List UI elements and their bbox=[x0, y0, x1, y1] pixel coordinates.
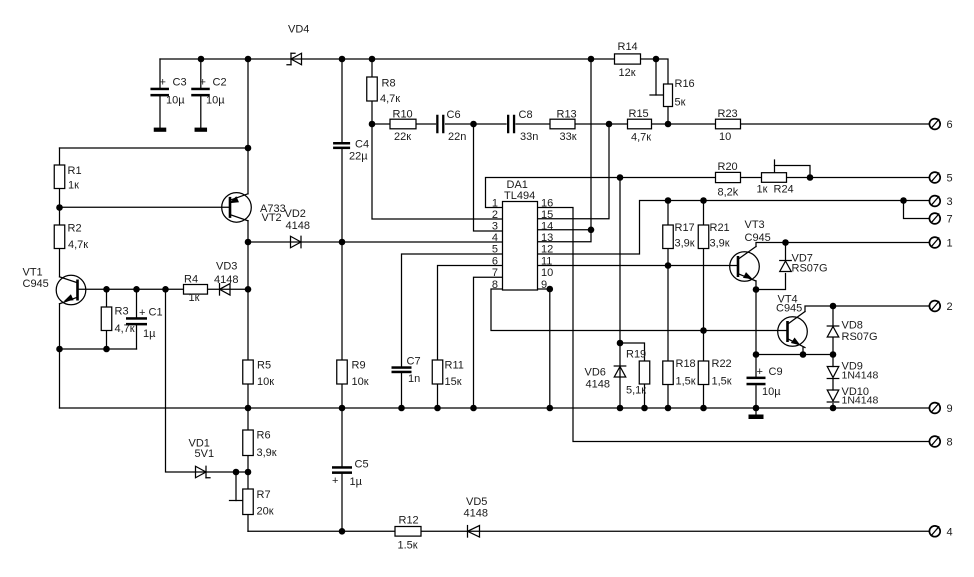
svg-text:VD2: VD2 bbox=[285, 208, 306, 220]
svg-text:15к: 15к bbox=[445, 376, 462, 388]
svg-text:R21: R21 bbox=[710, 222, 730, 234]
svg-text:1N4148: 1N4148 bbox=[842, 395, 879, 407]
svg-text:C3: C3 bbox=[173, 77, 187, 89]
svg-text:R7: R7 bbox=[257, 489, 271, 501]
svg-text:C4: C4 bbox=[355, 139, 369, 151]
svg-text:10: 10 bbox=[541, 267, 553, 279]
svg-text:5: 5 bbox=[947, 173, 953, 185]
svg-text:R20: R20 bbox=[718, 161, 738, 173]
svg-text:5к: 5к bbox=[675, 97, 686, 109]
svg-text:4148: 4148 bbox=[586, 379, 610, 391]
svg-text:10к: 10к bbox=[352, 376, 369, 388]
svg-text:1к: 1к bbox=[189, 292, 200, 304]
svg-text:16: 16 bbox=[541, 197, 553, 209]
svg-text:9: 9 bbox=[541, 279, 547, 291]
svg-text:VT2: VT2 bbox=[262, 212, 282, 224]
svg-text:C5: C5 bbox=[355, 459, 369, 471]
svg-text:VD8: VD8 bbox=[842, 320, 863, 332]
svg-text:6: 6 bbox=[492, 255, 498, 267]
svg-text:+: + bbox=[200, 77, 206, 89]
svg-text:4,7к: 4,7к bbox=[380, 93, 400, 105]
svg-text:+: + bbox=[139, 307, 145, 319]
svg-text:10к: 10к bbox=[257, 376, 274, 388]
svg-text:+: + bbox=[757, 366, 763, 378]
svg-text:4,7к: 4,7к bbox=[115, 323, 135, 335]
svg-text:4: 4 bbox=[492, 232, 498, 244]
svg-text:12к: 12к bbox=[619, 67, 636, 79]
svg-text:R12: R12 bbox=[399, 515, 419, 527]
svg-text:1,5к: 1,5к bbox=[712, 376, 732, 388]
svg-text:33n: 33n bbox=[520, 131, 538, 143]
svg-text:RS07G: RS07G bbox=[792, 263, 828, 275]
svg-text:7: 7 bbox=[947, 214, 953, 226]
svg-text:13: 13 bbox=[541, 232, 553, 244]
svg-text:1к: 1к bbox=[757, 184, 768, 196]
svg-text:R14: R14 bbox=[618, 41, 638, 53]
svg-text:3: 3 bbox=[947, 196, 953, 208]
svg-text:9: 9 bbox=[947, 403, 953, 415]
svg-text:5,1к: 5,1к bbox=[626, 385, 646, 397]
svg-text:C945: C945 bbox=[23, 278, 49, 290]
svg-text:RS07G: RS07G bbox=[842, 331, 878, 343]
svg-text:5V1: 5V1 bbox=[195, 448, 215, 460]
svg-text:VT1: VT1 bbox=[23, 267, 43, 279]
svg-text:C8: C8 bbox=[519, 109, 533, 121]
svg-text:R8: R8 bbox=[382, 78, 396, 90]
svg-text:4: 4 bbox=[947, 526, 953, 538]
svg-text:+: + bbox=[160, 77, 166, 89]
svg-text:TL494: TL494 bbox=[504, 190, 535, 202]
svg-text:C9: C9 bbox=[769, 366, 783, 378]
svg-text:14: 14 bbox=[541, 221, 553, 233]
svg-text:C2: C2 bbox=[213, 77, 227, 89]
svg-text:R17: R17 bbox=[675, 222, 695, 234]
svg-text:VD4: VD4 bbox=[288, 24, 309, 36]
svg-text:3: 3 bbox=[492, 221, 498, 233]
svg-text:4,7к: 4,7к bbox=[68, 239, 88, 251]
svg-text:VD6: VD6 bbox=[585, 367, 606, 379]
svg-text:6: 6 bbox=[947, 119, 953, 131]
svg-text:R23: R23 bbox=[718, 108, 738, 120]
svg-text:2: 2 bbox=[492, 209, 498, 221]
svg-text:R22: R22 bbox=[712, 358, 732, 370]
svg-text:2: 2 bbox=[947, 301, 953, 313]
svg-text:R9: R9 bbox=[352, 360, 366, 372]
svg-text:C1: C1 bbox=[149, 307, 163, 319]
svg-text:22µ: 22µ bbox=[349, 151, 368, 163]
svg-text:3,9к: 3,9к bbox=[710, 238, 730, 250]
svg-text:1µ: 1µ bbox=[143, 328, 156, 340]
svg-text:8: 8 bbox=[492, 279, 498, 291]
svg-text:4,7к: 4,7к bbox=[631, 132, 651, 144]
svg-text:VD3: VD3 bbox=[216, 261, 237, 273]
svg-text:22n: 22n bbox=[448, 131, 466, 143]
svg-text:8,2k: 8,2k bbox=[718, 187, 739, 199]
svg-text:R19: R19 bbox=[626, 349, 646, 361]
svg-text:8: 8 bbox=[947, 437, 953, 449]
svg-text:10: 10 bbox=[719, 131, 731, 143]
svg-text:15: 15 bbox=[541, 209, 553, 221]
svg-text:10µ: 10µ bbox=[762, 386, 781, 398]
svg-text:22к: 22к bbox=[394, 131, 411, 143]
svg-text:R4: R4 bbox=[184, 274, 198, 286]
svg-text:4148: 4148 bbox=[214, 274, 238, 286]
svg-text:5: 5 bbox=[492, 244, 498, 256]
svg-text:C6: C6 bbox=[447, 109, 461, 121]
svg-text:R18: R18 bbox=[676, 358, 696, 370]
svg-text:10µ: 10µ bbox=[166, 95, 185, 107]
svg-text:1,5к: 1,5к bbox=[676, 376, 696, 388]
svg-text:C945: C945 bbox=[776, 303, 802, 315]
svg-text:1к: 1к bbox=[68, 180, 79, 192]
svg-text:C7: C7 bbox=[407, 356, 421, 368]
svg-text:10µ: 10µ bbox=[206, 95, 225, 107]
svg-text:R6: R6 bbox=[257, 430, 271, 442]
svg-text:+: + bbox=[332, 475, 338, 487]
svg-text:R5: R5 bbox=[257, 360, 271, 372]
svg-text:R16: R16 bbox=[675, 78, 695, 90]
svg-text:20к: 20к bbox=[257, 506, 274, 518]
svg-text:VT3: VT3 bbox=[745, 219, 765, 231]
svg-text:1n: 1n bbox=[408, 373, 420, 385]
svg-text:11: 11 bbox=[541, 255, 552, 267]
svg-text:4148: 4148 bbox=[286, 220, 310, 232]
svg-text:R3: R3 bbox=[115, 306, 129, 318]
svg-text:7: 7 bbox=[492, 267, 498, 279]
svg-text:4148: 4148 bbox=[464, 508, 488, 520]
svg-text:R15: R15 bbox=[629, 108, 649, 120]
svg-text:1µ: 1µ bbox=[350, 476, 363, 488]
svg-text:1.5к: 1.5к bbox=[398, 540, 418, 552]
svg-text:1N4148: 1N4148 bbox=[842, 370, 879, 382]
svg-text:R13: R13 bbox=[557, 109, 577, 121]
svg-text:33к: 33к bbox=[560, 131, 577, 143]
svg-text:C945: C945 bbox=[745, 232, 771, 244]
svg-text:R2: R2 bbox=[68, 223, 82, 235]
svg-text:3,9к: 3,9к bbox=[257, 447, 277, 459]
svg-text:VD5: VD5 bbox=[466, 496, 487, 508]
svg-text:R11: R11 bbox=[445, 360, 464, 372]
svg-text:3,9к: 3,9к bbox=[675, 238, 695, 250]
svg-text:1: 1 bbox=[947, 238, 953, 250]
svg-text:1: 1 bbox=[492, 197, 498, 209]
svg-text:R1: R1 bbox=[68, 165, 82, 177]
svg-text:R10: R10 bbox=[393, 109, 413, 121]
svg-text:R24: R24 bbox=[774, 184, 794, 196]
svg-text:12: 12 bbox=[541, 244, 553, 256]
